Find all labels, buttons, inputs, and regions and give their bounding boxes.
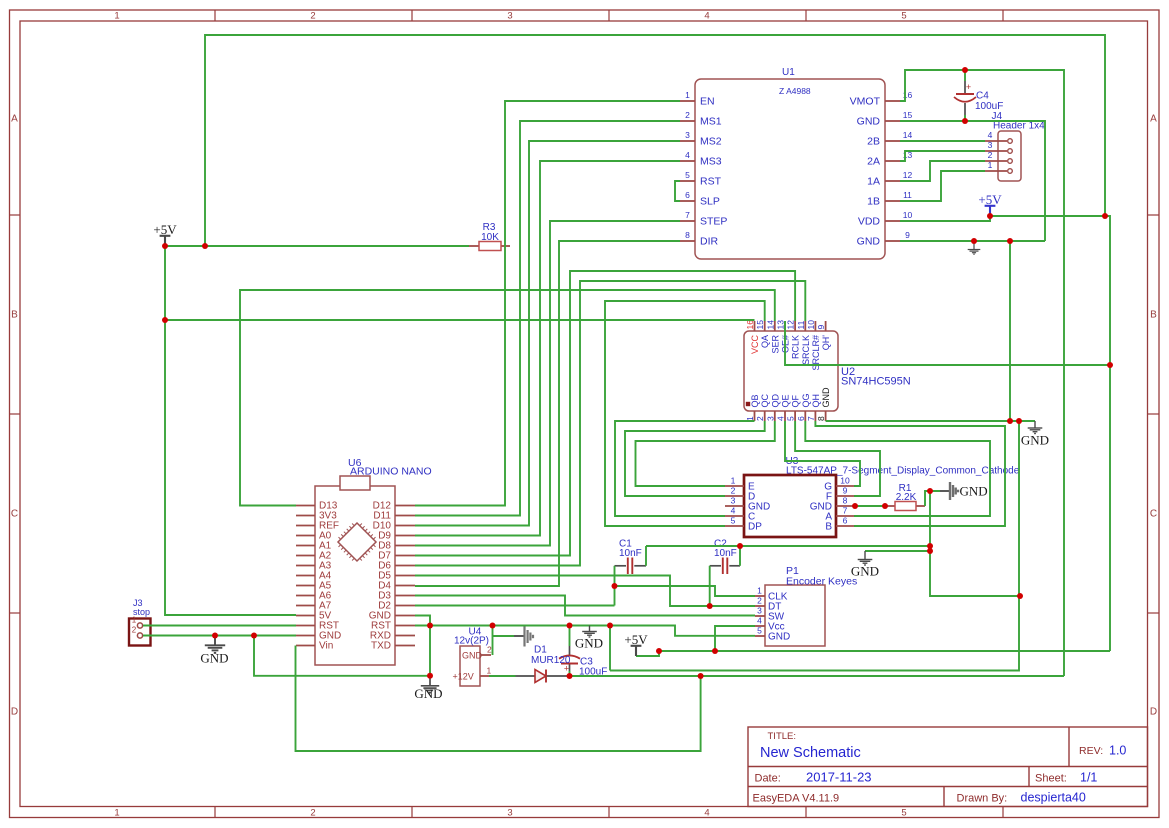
wire C1 right lead up [645,546,647,566]
U6 pin D6 right [395,565,415,567]
svg-text:GND: GND [857,236,881,248]
U6 pin A7 left [296,605,315,607]
wire U6 RST right to GND rail [415,626,755,636]
P1 pin 4 Vcc [755,625,765,627]
U2 pin 11 SRCLK [804,321,806,331]
svg-text:1A: 1A [867,176,880,188]
wire +5V to R3 [165,245,469,247]
wire U2 QB to U3 C [615,421,755,516]
connector J3 stop [129,619,151,646]
wire J3 pin2 to U6 GND [143,635,296,637]
svg-text:C4: C4 [976,91,989,102]
J4 pin 1 [985,170,1007,172]
wire GND symbol link [865,550,930,552]
svg-text:3: 3 [731,496,736,506]
U2 pin 13 OE# [784,321,786,331]
svg-text:6: 6 [685,190,690,200]
svg-text:11: 11 [796,320,806,329]
svg-text:Vin: Vin [319,641,333,652]
IC U6 ARDUINO NANO [315,486,395,665]
wire U2 GND8 row [826,420,1035,422]
wire C4 bottom lead [964,115,966,121]
ground flag at U4 [514,635,525,637]
wire U1 GND15 to GND9 [900,121,1045,241]
J4 pin 3 [985,150,1007,152]
svg-text:1: 1 [114,11,119,22]
wire R1 GND junction down [930,491,1020,596]
svg-text:4: 4 [988,130,993,140]
P1 pin 2 DT [755,605,765,607]
svg-text:GND: GND [768,632,790,643]
wire P1 Vcc jog [715,626,755,651]
U3 pin 2 D [725,495,744,497]
U1 pin 14 2B [885,140,900,142]
U6 pin Vin left [296,645,315,647]
wire U1 RST-SLP loop [675,181,680,201]
U2 pin 14 SER [774,321,776,331]
U6 pin D4 right [395,585,415,587]
U6 pin 5V left [296,615,315,617]
U2 pin 1 QB [754,411,756,421]
svg-text:4: 4 [731,506,736,516]
J4 pin 2 [985,160,1007,162]
U2 pin 16 VCC [754,321,756,331]
svg-text:7: 7 [806,416,816,421]
svg-text:VCC: VCC [750,335,760,355]
U3 pin 5 DP [725,525,744,527]
wire C4 top lead [964,70,966,81]
svg-text:8: 8 [843,496,848,506]
U6 chip diamond [338,523,376,561]
wire U6 D5 to P1 DT [415,576,755,607]
U3 pin 6 B [836,525,854,527]
svg-text:B: B [825,522,832,533]
wire U2 SER to U6 D13 [240,290,775,506]
U1 pin 7 STEP [680,220,695,222]
svg-text:9: 9 [905,230,910,240]
wire GND branch mid [609,626,611,671]
wire J3 pin1 to U6 RST [143,625,296,627]
svg-text:2: 2 [487,645,492,655]
svg-text:7: 7 [685,210,690,220]
svg-text:Header 1x4: Header 1x4 [993,121,1045,132]
U1 pin 11 1B [885,200,900,202]
svg-text:1/1: 1/1 [1080,771,1097,785]
U2 pin 10 SRCLR# [814,321,816,331]
U4 pin 1 stub [480,675,489,677]
ground symbol mid GND rail [582,626,597,638]
svg-text:B: B [11,310,18,321]
U2 pin 7 QH [814,411,816,421]
wire U2 RCLK to U6 D7 [415,271,795,556]
wire U2 QH to U3 B [815,421,1005,526]
svg-text:1.0: 1.0 [1109,744,1126,758]
wire U1 DIR to U6 D4 [415,241,680,586]
wire +5V to U2 VCC [165,319,755,321]
svg-text:SRCLK: SRCLK [801,335,811,365]
wire C3 bottom to +12V [569,671,571,676]
J3 pin 1 [137,623,142,628]
U6 pin REF left [296,525,315,527]
svg-text:2B: 2B [867,136,880,148]
svg-text:DP: DP [748,522,762,533]
wire +12V to bottom rail [296,646,701,752]
wire U6 D3 to P1 SW [415,596,755,616]
U2 pin 6 QG [804,411,806,421]
svg-text:LTS-547AP_7-Segment_Display_Co: LTS-547AP_7-Segment_Display_Common_Catho… [786,466,1020,477]
svg-text:SN74HC595N: SN74HC595N [841,376,911,388]
svg-text:TITLE:: TITLE: [768,731,797,742]
svg-text:RST: RST [700,176,722,188]
resistor R1 2.2K [885,505,895,507]
wire U2 QF to U3 F [795,421,880,496]
svg-text:1: 1 [114,808,119,819]
wire +12V net right [568,675,1064,677]
U3 pin 8 GND [836,505,854,507]
U3 pin 1 E [725,485,744,487]
wire U1 MS2 to U6 D10 [415,141,680,526]
svg-text:1: 1 [757,586,762,596]
svg-text:+5V: +5V [624,632,648,647]
U1 pin 4 MS3 [680,160,695,162]
wire U3 GND8 to R1 [854,505,885,507]
IC U1 A4988 stepper driver [695,79,885,259]
U3 pin 7 A [836,515,854,517]
svg-text:Z A4988: Z A4988 [779,86,811,96]
wire U2 QD to U3 E [636,421,775,486]
U6 pin A1 left [296,545,315,547]
svg-text:3: 3 [685,130,690,140]
svg-text:4: 4 [685,150,690,160]
svg-text:4: 4 [704,808,709,819]
diode D1 MUR120 [516,675,536,677]
junction dots [162,243,168,249]
svg-text:5: 5 [786,416,796,421]
svg-text:3: 3 [988,140,993,150]
U2 pin 4 QE [784,411,786,421]
svg-text:MUR120: MUR120 [531,655,571,666]
wire GND riser right [610,421,1019,671]
svg-text:EasyEDA V4.11.9: EasyEDA V4.11.9 [753,793,840,805]
svg-text:9: 9 [843,486,848,496]
svg-text:SER: SER [770,335,780,354]
U2 pin 2 QC [764,411,766,421]
svg-text:Date:: Date: [755,773,781,785]
svg-text:10: 10 [903,210,913,220]
U6 pin D13 left [296,505,315,507]
U3 pin 4 C [725,515,744,517]
ground symbol at U2 GND [1028,421,1043,434]
wire U2 QG to U3 A [805,421,990,516]
U6 pin A3 left [296,565,315,567]
svg-text:Sheet:: Sheet: [1035,773,1067,785]
svg-text:D1: D1 [534,645,547,656]
svg-text:1B: 1B [867,196,880,208]
svg-text:GND: GND [200,651,228,666]
wire caps to GND line [646,545,930,547]
U6 pin D5 right [395,575,415,577]
wire CLK net C1 vertical [614,566,616,606]
svg-text:ARDUINO NANO: ARDUINO NANO [350,466,432,478]
svg-text:5: 5 [757,626,762,636]
J4 pin 4 [985,140,1007,142]
svg-text:13: 13 [776,320,786,330]
svg-text:D: D [11,707,18,718]
svg-text:4: 4 [704,11,709,22]
svg-text:despierta40: despierta40 [1021,791,1086,805]
U1 pin 13 2A [885,160,900,162]
svg-text:QH': QH' [821,335,831,351]
U1 pin 1 EN [680,100,695,102]
U6 pin D7 right [395,555,415,557]
U6 pin D12 right [395,505,415,507]
U2 pin 3 QD [774,411,776,421]
ground symbol at J3 net [205,636,225,653]
U1 pin 3 MS2 [680,140,695,142]
svg-text:15: 15 [903,110,913,120]
svg-text:GND: GND [575,636,603,651]
svg-text:3: 3 [765,416,775,421]
wire U1 VMOT to +12V bus [900,70,1064,676]
svg-text:3: 3 [507,808,512,819]
U6 pin D9 right [395,535,415,537]
svg-text:+: + [966,82,971,92]
svg-text:4: 4 [776,416,786,421]
U1 pin 6 SLP [680,200,695,202]
P1 pin 3 SW [755,615,765,617]
svg-text:5: 5 [901,11,906,22]
wire U1 2B to J4 pin4 [900,140,985,142]
wire U2 OE# to right bus [785,321,1110,365]
svg-text:2: 2 [310,11,315,22]
P1 pin 5 GND [755,635,765,637]
U6 pin D10 right [395,525,415,527]
svg-text:+5V: +5V [153,222,177,237]
svg-text:QG: QG [801,393,811,407]
power flag +5V left [160,236,171,246]
svg-text:5: 5 [731,516,736,526]
svg-text:2: 2 [685,110,690,120]
svg-text:GND: GND [414,686,442,701]
U3 pin 9 F [836,495,854,497]
svg-text:7: 7 [843,506,848,516]
U6 pin RST left [296,625,315,627]
svg-text:5: 5 [685,170,690,180]
U1 pin 5 RST [680,180,695,182]
capacitor C3 100uF [569,646,571,657]
svg-text:10: 10 [840,476,850,486]
U6 usb connector rect [340,476,370,490]
U2 pin1 marker square [746,402,750,406]
svg-text:D: D [1150,707,1157,718]
U6 pin 3V3 left [296,515,315,517]
wire U4 GND pin riser [492,626,494,656]
svg-text:C: C [11,509,18,520]
wire +5V bottom line [659,650,1110,652]
svg-text:10: 10 [806,320,816,330]
svg-text:STEP: STEP [700,216,727,228]
wire R1 to GND [925,491,940,506]
U6 pin D2 right [395,605,415,607]
svg-text:8: 8 [685,230,690,240]
svg-text:+5V: +5V [978,192,1002,207]
U6 pin RST right [395,625,415,627]
U6 pin D3 right [395,595,415,597]
resistor R3 10K [469,245,479,247]
svg-text:REV:: REV: [1079,745,1103,757]
svg-text:GND: GND [821,387,831,408]
svg-text:MS3: MS3 [700,156,722,168]
IC U2 SN74HC595N shift register [744,331,838,411]
svg-text:QE: QE [781,394,791,407]
svg-text:GND: GND [960,484,988,499]
svg-text:QC: QC [760,393,770,407]
wire CLK jog to P1 [615,586,756,596]
svg-text:GND: GND [1021,433,1049,448]
U1 pin 15 GND [885,120,900,122]
connector P1 Encoder Keyes [765,585,825,646]
svg-text:Drawn By:: Drawn By: [957,793,1008,805]
svg-text:1: 1 [988,160,993,170]
U1 pin 10 VDD [885,220,900,222]
wire U6 D2 to CLK net [415,605,615,607]
svg-text:11: 11 [903,190,912,200]
svg-text:16: 16 [745,320,755,330]
wire U1 MS1 to U6 D11 [415,121,680,516]
wire C2 left lead down [709,566,711,606]
svg-text:8: 8 [816,416,826,421]
U6 pin A6 left [296,595,315,597]
svg-text:TXD: TXD [371,641,391,652]
power flag +5V bottom [631,646,642,656]
svg-text:2017-11-23: 2017-11-23 [806,770,872,785]
U6 pin GND left [296,635,315,637]
svg-text:QA: QA [760,335,770,348]
svg-text:6: 6 [843,516,848,526]
svg-text:QD: QD [770,393,780,407]
U2 pin 12 RCLK [794,321,796,331]
svg-text:2: 2 [757,596,762,606]
capacitor C1 10nF [615,565,627,567]
svg-text:14: 14 [765,320,775,330]
svg-text:3: 3 [507,11,512,22]
svg-text:15: 15 [755,320,765,330]
svg-text:10nF: 10nF [619,548,642,559]
wire U2 QC to U3 D [625,421,765,496]
svg-text:VDD: VDD [858,216,881,228]
svg-text:QF: QF [791,394,801,407]
U6 pin GND right [395,615,415,617]
svg-text:2: 2 [731,486,736,496]
svg-text:New Schematic: New Schematic [760,745,861,761]
svg-text:A: A [1150,114,1157,125]
svg-text:QH: QH [811,394,821,408]
U1 pin 2 MS1 [680,120,695,122]
U6 pin D8 right [395,545,415,547]
wire U2 QA to U3 DP [605,301,765,526]
U3 pin 10 G [836,485,854,487]
wire C2 right lead up [739,546,741,566]
svg-text:MS1: MS1 [700,116,722,128]
svg-text:2: 2 [132,626,137,635]
svg-text:12: 12 [786,320,796,330]
svg-text:2: 2 [310,808,315,819]
U1 pin 12 1A [885,180,900,182]
U1 pin 9 GND [885,240,900,242]
svg-text:U1: U1 [782,67,795,78]
wire GND flag link [493,635,515,637]
svg-text:14: 14 [903,130,913,140]
U1 pin 8 DIR [680,240,695,242]
U6 pin A4 left [296,575,315,577]
svg-text:QB: QB [750,394,760,407]
svg-text:1: 1 [487,666,492,676]
U6 pin RXD right [395,635,415,637]
wire U2 QE to U3 G [785,421,860,486]
svg-text:6: 6 [796,416,806,421]
ground symbol sideways at R1 [940,490,950,492]
svg-text:GND: GND [851,564,879,579]
ground symbol below U6 [421,676,439,693]
svg-text:10nF: 10nF [714,548,737,559]
svg-text:4: 4 [757,616,762,626]
svg-text:RCLK: RCLK [791,335,801,359]
U2 pin 9 QH' [825,321,827,331]
svg-text:100uF: 100uF [975,101,1003,112]
svg-text:+12V: +12V [453,672,474,682]
svg-text:GND: GND [462,651,483,661]
J3 pin 2 [137,633,142,638]
connector U4 12v(2P) [460,646,480,686]
wire U6 GND right [415,616,430,676]
wire U1 STEP to U6 D8 [415,221,680,546]
svg-text:2A: 2A [867,156,880,168]
U6 pin A5 left [296,585,315,587]
power flag +5V at U1 VDD [985,206,996,216]
U6 pin A2 left [296,555,315,557]
U6 pin D11 right [395,515,415,517]
svg-text:EN: EN [700,96,715,108]
ground symbol below caps [858,551,873,565]
wire U1 MS3 to U6 D9 [415,161,680,536]
svg-text:MS2: MS2 [700,136,722,148]
svg-text:2.2K: 2.2K [896,492,917,503]
svg-text:SLP: SLP [700,196,720,208]
svg-text:12v(2P): 12v(2P) [454,636,489,647]
U4 pin 2 stub [480,654,491,656]
wire U1 1B to J4 pin1 [900,171,985,201]
svg-text:DIR: DIR [700,236,719,248]
wire +5V left rail [165,246,296,615]
wire U1 2A to J4 pin3 [900,151,985,161]
wire U1 VDD to +5V [900,216,990,221]
wire U1 EN to U6 D12 [415,101,680,506]
connector J4 Header 1x4 [998,131,1021,181]
P1 pin 1 CLK [755,595,765,597]
wire C3 top lead [569,626,571,647]
svg-text:5: 5 [901,808,906,819]
U2 pin 5 QF [794,411,796,421]
title block [748,727,1148,807]
svg-text:1: 1 [731,476,736,486]
U2 pin 15 QA [764,321,766,331]
svg-text:GND: GND [857,116,881,128]
ground symbol at U1 GND9 [968,241,981,254]
svg-text:2: 2 [988,150,993,160]
wire U1 GND9 [900,240,1045,242]
svg-text:3: 3 [757,606,762,616]
svg-text:VMOT: VMOT [850,96,881,108]
